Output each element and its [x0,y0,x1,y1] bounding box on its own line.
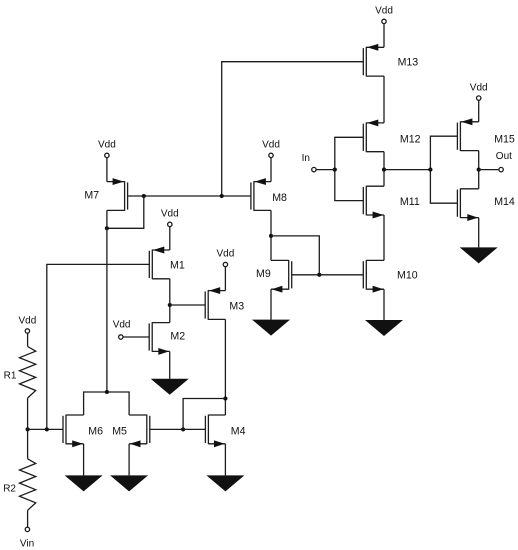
Vdd terminal M13 [382,19,386,23]
transistor M13 [363,44,384,77]
Vin terminal [25,527,29,531]
wire to output stage [384,169,430,171]
wire M6 source to ground [83,444,85,476]
node M1-M2 drain [168,303,172,307]
wire M8 drain chain [270,210,272,260]
node output stage gate tap [428,168,432,172]
svg-text:R1: R1 [4,371,17,382]
svg-text:M15: M15 [494,134,515,146]
transistor M11 [363,186,384,219]
node M3 drain junction [223,396,227,400]
node divider junction [26,427,30,431]
ground M10 [365,320,403,336]
resistor R2 [20,459,36,511]
transistor M5 [129,415,150,448]
wire divider tap [28,428,63,430]
node second stage output [382,168,386,172]
svg-text:M1: M1 [170,260,185,272]
wire M9 source to ground [270,289,272,319]
svg-text:M5: M5 [112,425,127,437]
wire M15 drain to out [478,151,480,170]
node gate bus junction [220,194,224,198]
transistor M8 [251,178,271,211]
node M9 gate junction [317,273,321,277]
In terminal [312,167,316,171]
wire M15-M14 gate loop [430,136,457,203]
wire M4 source to ground [224,444,226,476]
svg-text:Vdd: Vdd [375,6,393,17]
node M8-M9 junction [269,234,273,238]
node M7 drain junction [105,226,109,230]
node mirror bridge junction [105,390,109,394]
transistor M7 [107,178,128,211]
wire M7 drain down to mirror bridge [106,210,108,392]
svg-text:M3: M3 [229,301,244,313]
transistor M3 [205,287,225,320]
Vdd terminal M15 [477,96,481,100]
svg-text:M10: M10 [397,269,418,281]
wire mirror gate branch [183,399,225,430]
svg-text:In: In [302,153,310,164]
wire M5 source to ground [128,444,130,476]
Out terminal [499,167,503,171]
svg-text:Vdd: Vdd [98,140,116,151]
transistor M9 [271,260,292,293]
wire M14 source to ground [478,218,480,248]
wire M7-M8 gate bus [128,195,251,197]
svg-text:M8: M8 [272,192,287,204]
transistor M6 [63,415,84,448]
svg-text:Vdd: Vdd [262,140,280,151]
svg-text:M6: M6 [88,425,103,437]
wire M2 gate to Vdd [123,336,149,338]
wire M12 drain node [383,152,385,170]
svg-text:Vdd: Vdd [470,82,488,93]
svg-text:M4: M4 [231,425,246,437]
wire M11 source to M10 drain [383,215,385,260]
node M1 gate bias junction [45,427,49,431]
wire M9-M10 gate bus [292,274,364,276]
transistor M12 [363,119,384,152]
ground M4 [206,475,244,491]
wire M10 source to ground [383,289,385,320]
wire M1-M2 drain node [169,279,171,323]
transistor M2 [149,322,170,355]
wire M11 drain node [383,170,385,187]
wire M6-M5 drain bridge [84,392,130,415]
wire node to R2 [27,429,29,458]
svg-text:R2: R2 [3,484,16,495]
svg-text:Vdd: Vdd [19,316,37,327]
svg-text:Vdd: Vdd [113,320,131,331]
svg-text:M9: M9 [256,268,271,280]
wire In to gates [316,169,335,171]
Vdd terminal M3 [223,262,227,266]
Vdd terminal M7 [105,153,109,157]
svg-text:Vin: Vin [20,539,34,550]
transistor M15 [457,118,478,151]
transistor M14 [457,188,478,221]
wire M13 drain to M12 source [383,76,385,123]
Vdd terminal (R1 top) [25,329,29,333]
wire R2 to Vin [27,510,29,527]
wire M2 source to ground [169,351,171,378]
node mirror gate junction [181,427,185,431]
node Out [477,168,481,172]
svg-text:Vdd: Vdd [217,249,235,260]
Vdd terminal M2 gate [119,335,123,339]
wire M3 drain chain [224,319,226,415]
svg-text:M7: M7 [84,189,99,201]
svg-text:M11: M11 [400,196,420,208]
wire M13 gate to gate bus [222,62,364,196]
node In junction [333,168,337,172]
svg-text:M14: M14 [494,196,515,208]
ground M14 [460,247,498,263]
wire M12-M11 gate loop [335,137,364,200]
resistor R1 [20,347,36,399]
wire Vdd to R1 [27,333,29,346]
Vdd terminal M1 [168,222,172,226]
ground M6 [65,475,103,491]
svg-text:M2: M2 [170,331,185,343]
svg-text:Out: Out [496,151,512,162]
wire M3 gate [170,304,205,306]
ground M5 [110,475,148,491]
Vdd terminal M8 [269,153,273,157]
node M7 gate junction [142,194,146,198]
wire M1 gate bias [47,264,150,429]
svg-text:M12: M12 [400,134,421,146]
svg-text:M13: M13 [398,57,419,69]
transistor M10 [363,260,384,293]
wire M5-M4 gate bus [150,428,206,430]
wire R1 to node [27,398,29,429]
transistor M1 [149,247,170,280]
wire to Out terminal [479,169,499,171]
wire M7 gate-drain feedback [107,196,144,228]
wire M14 drain to out [478,170,480,189]
ground M9 [252,320,290,336]
ground M2 [151,379,189,395]
svg-text:Vdd: Vdd [161,209,179,220]
wire M9 diode loop [271,236,319,275]
transistor M4 [205,415,225,448]
